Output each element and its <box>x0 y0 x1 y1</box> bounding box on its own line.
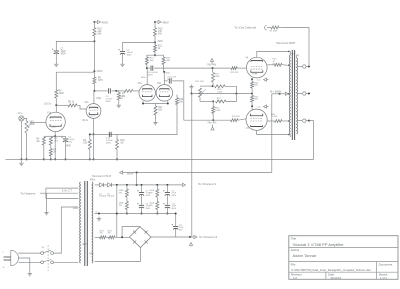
bias rail vertical from bridge <box>191 94 193 238</box>
tetrode V4 KT88 upper <box>246 57 268 78</box>
lower grid line <box>184 119 231 121</box>
title block Sheets <box>379 272 388 280</box>
tetrode V3 KT88 lower <box>246 109 267 130</box>
wire V2b plate <box>163 72 165 84</box>
B+ 560V feed <box>270 90 288 96</box>
node V1b plate 240v <box>93 90 102 100</box>
wire secondary common to ground bus <box>21 121 313 160</box>
NFB wire from 16R tap <box>283 28 309 67</box>
bias filter capacitor C11 47uF <box>172 213 185 238</box>
filter capacitor C7 47uF upper <box>137 185 151 205</box>
svg-text:RV1 50K: RV1 50K <box>195 81 204 83</box>
switched neutral to primary <box>54 261 79 263</box>
NFB resistor R1 3K9 <box>270 26 283 33</box>
svg-text:2W: 2W <box>108 233 111 235</box>
grid stopper R24 2K2 (lower) <box>231 116 246 122</box>
node V1a plate 181.5v <box>44 104 57 107</box>
svg-text:40.2v: 40.2v <box>82 120 88 122</box>
bias winding lower wire <box>95 248 141 262</box>
title block File <box>291 262 372 272</box>
grid stopper R11 to V2a <box>116 89 139 100</box>
resistor R10 22k 5W <box>93 28 103 37</box>
resistor R22 220K (lower bias) <box>212 101 221 121</box>
svg-text:1N5408: 1N5408 <box>99 196 107 198</box>
wire pot to ground bus <box>26 133 28 160</box>
title block frame <box>289 236 398 280</box>
resistor R6 220K (V1a load) <box>55 90 65 98</box>
resistor R17 820 (driver cathode) <box>154 106 163 121</box>
upper cathode node 1.1v <box>251 78 268 82</box>
bias feed L wire <box>121 227 140 239</box>
svg-text:V1b: V1b <box>85 102 90 104</box>
heater wires 6.3v C.T <box>40 188 78 198</box>
svg-text:400V: 400V <box>146 195 151 197</box>
resistor R9 (V1b load) <box>93 71 103 91</box>
svg-text:6.3v C.T: 6.3v C.T <box>62 188 73 192</box>
svg-text:'Mucsat 1' KT88 PP Amplifier: 'Mucsat 1' KT88 PP Amplifier <box>293 242 345 247</box>
wire left rail mid <box>93 41 95 71</box>
PSU filter top row <box>116 184 182 186</box>
svg-text:1 of 1: 1 of 1 <box>380 276 387 280</box>
wire jack ground <box>20 121 22 160</box>
wire to C1 <box>56 41 94 48</box>
svg-text:NFB: NFB <box>66 145 71 147</box>
grid stopper R23 2K2 (upper) <box>231 67 247 74</box>
svg-text:Hammond 1650T: Hammond 1650T <box>276 42 296 45</box>
wire V1a cathode to R5 junction <box>54 137 56 160</box>
mains neutral wire <box>18 261 40 263</box>
resistor R18 10K <box>117 95 184 135</box>
svg-text:220K: 220K <box>215 76 221 78</box>
svg-text:R1 3K9: R1 3K9 <box>270 31 278 33</box>
svg-text:340V: 340V <box>158 41 164 43</box>
rectifier diode D2 1N5408 <box>104 183 117 198</box>
node upper bias junction <box>212 85 214 87</box>
svg-text:2W: 2W <box>119 192 122 194</box>
svg-text:560V: 560V <box>127 172 134 176</box>
title block Title <box>291 237 345 248</box>
mains live wire <box>18 252 40 254</box>
svg-text:2W: 2W <box>100 233 103 235</box>
wire split to branches <box>147 55 164 57</box>
ground driver cathode <box>153 121 157 125</box>
label 400V lower <box>82 243 88 246</box>
node 340V driver rail <box>154 41 163 44</box>
wire V1b plate <box>93 91 95 104</box>
560V dropper vertical <box>136 173 138 185</box>
secondary tap 0R <box>297 119 310 122</box>
node driver grid leak <box>115 90 117 92</box>
node 340V left rail <box>93 69 102 73</box>
bleeder resistor R30 180K lower <box>119 202 129 215</box>
svg-text:File: File <box>291 262 296 266</box>
wire V1b cathode down <box>93 118 95 135</box>
svg-text:400V: 400V <box>148 74 154 76</box>
label 40.2v <box>82 120 88 122</box>
node upper grid line <box>212 67 214 69</box>
label Hammond 372JX <box>92 175 112 178</box>
resistor R2 15K (V1b cathode) <box>83 134 91 160</box>
coupling capacitor C3 0.47uF 400V <box>94 88 116 103</box>
bias output wire <box>151 236 191 238</box>
title block Date <box>328 272 341 280</box>
svg-text:2W: 2W <box>119 205 122 207</box>
capacitor C2 100uF (cathode bypass) <box>55 136 75 160</box>
svg-text:Title: Title <box>291 237 297 241</box>
capacitor C1 10uF 400V <box>52 48 66 62</box>
bleeder resistor R29 180K upper <box>119 185 129 202</box>
driver cathode junction wires <box>142 101 169 106</box>
svg-text:400V: 400V <box>127 54 133 56</box>
switch S1b <box>41 260 54 264</box>
svg-text:V2a: V2a <box>138 83 143 85</box>
label 64v bias <box>89 253 94 256</box>
svg-text:100K: 100K <box>217 91 223 93</box>
heater CT ground drop <box>44 193 48 215</box>
cathode sense resistor R27 0R1 lower <box>251 94 260 107</box>
PSU bottom rail 0v <box>95 212 176 215</box>
svg-text:460V: 460V <box>162 20 169 24</box>
svg-text:31/10/10: 31/10/10 <box>330 276 341 280</box>
svg-text:To Channel 2: To Channel 2 <box>199 235 218 239</box>
bias dropper resistors 0k47 <box>95 231 130 239</box>
switch linkage dashed <box>47 245 49 270</box>
wire cathode feedback line <box>89 133 117 135</box>
bridge rectifier BR1 <box>130 227 152 248</box>
svg-text:R24 2K2: R24 2K2 <box>232 116 241 118</box>
wire bias ground stem <box>191 89 193 94</box>
switch S1a <box>41 247 54 254</box>
resistor R20 100K horizontal <box>215 85 237 94</box>
power transformer primary winding <box>79 182 82 263</box>
output transformer core <box>292 50 294 140</box>
mains earth wire <box>18 258 32 276</box>
lower bias arrow -76v <box>207 121 217 131</box>
wire V1a cathode down <box>54 132 56 138</box>
svg-text:220K: 220K <box>59 93 65 95</box>
secondary tap 16R <box>297 65 310 68</box>
ground bias reference <box>189 85 193 89</box>
node V2a plate junction <box>141 65 148 80</box>
svg-text:39K: 39K <box>150 60 154 62</box>
label To Heaters <box>20 192 35 196</box>
ground bus <box>6 158 314 160</box>
svg-text:V2b: V2b <box>157 83 162 85</box>
svg-text:15K: 15K <box>83 143 88 145</box>
svg-text:J1 In: J1 In <box>17 113 23 115</box>
resistor R12 1k (driver feed) <box>154 43 163 56</box>
To Channel 2 arrow (bias) <box>190 235 218 239</box>
triode V1a <box>46 112 65 131</box>
title block Revision <box>291 272 302 280</box>
lower cathode node 1.1v <box>251 105 268 109</box>
svg-text:400v: 400v <box>90 179 96 182</box>
ground below C4 <box>120 62 124 66</box>
resistor R5 47 (NFB leg) <box>49 149 57 161</box>
resistor R14 39K (V2a load) <box>145 57 154 65</box>
svg-text:2W: 2W <box>149 205 152 207</box>
svg-text:R23 2K2: R23 2K2 <box>231 72 240 74</box>
wire V1b cathode to bus <box>93 134 95 160</box>
node driver loads split <box>154 54 156 56</box>
560V rail to B+ riser <box>126 172 271 174</box>
node V2b plate junction <box>163 65 171 75</box>
B+ riser from PSU <box>271 94 273 173</box>
title block Author <box>291 248 317 258</box>
potentiometer VR1 100K <box>25 121 35 133</box>
svg-text:181.5v: 181.5v <box>44 104 52 106</box>
svg-text:-76v 4%: -76v 4% <box>206 63 216 67</box>
wire tap to V1a plate rail <box>56 72 94 90</box>
resistor R15 1M to bus <box>116 134 126 160</box>
label 400v upper <box>90 179 96 182</box>
svg-text:Adam Tonnar: Adam Tonnar <box>293 253 317 258</box>
svg-text:To V1a Cathode: To V1a Cathode <box>234 25 256 29</box>
filter capacitor C8 47uF lower <box>137 203 151 215</box>
cathode sense resistor R26 0R1 upper <box>251 79 260 93</box>
ground PSU 0v <box>97 217 101 221</box>
svg-text:230v: 230v <box>73 206 79 210</box>
svg-text:400V: 400V <box>82 243 88 246</box>
mains plug PL1 <box>3 250 19 268</box>
triode V1b <box>85 102 101 118</box>
svg-text:400V: 400V <box>146 208 151 210</box>
ground driver grid leak <box>117 103 121 107</box>
wire V1a plate <box>55 105 57 112</box>
bleeder resistor R31 100K upper <box>149 185 158 202</box>
wire R6 to node <box>55 98 57 105</box>
wire lower plate to OPT bottom <box>257 130 289 134</box>
svg-text:100K: 100K <box>217 101 223 103</box>
svg-text:220K: 220K <box>215 110 221 112</box>
coupling to V1b: wire and resistor R8 <box>56 102 86 109</box>
power transformer secondary winding <box>91 182 94 263</box>
svg-text:12ax7: 12ax7 <box>89 115 96 117</box>
resistor R3 1K5 (V1a cathode) <box>49 136 59 148</box>
lower bias junction node <box>200 100 214 102</box>
triode V2a driver <box>138 83 156 101</box>
filter capacitor C9 47uF upper <box>163 185 177 205</box>
filter capacitor C10 47uF lower <box>163 203 177 215</box>
svg-text:400V: 400V <box>106 143 112 145</box>
svg-text:100K: 100K <box>30 124 36 126</box>
wire V2a plate <box>146 68 148 85</box>
svg-text:340V: 340V <box>97 69 103 73</box>
screen resistor R28 (lower UL) <box>267 114 288 123</box>
wire lower cathode top <box>251 106 253 110</box>
title block Document <box>379 263 393 267</box>
resistor R4 1M grid leak <box>36 136 55 160</box>
switched live to primary <box>54 207 79 253</box>
svg-text:39K: 39K <box>166 60 170 62</box>
svg-text:To Channel 2: To Channel 2 <box>198 182 217 186</box>
svg-text:1N5408: 1N5408 <box>107 196 115 198</box>
svg-text:240v: 240v <box>96 98 102 100</box>
svg-text:R8 1K: R8 1K <box>68 102 75 104</box>
secondary tap 8R <box>297 92 310 95</box>
svg-text:460V: 460V <box>102 20 109 24</box>
svg-text:OPT: OPT <box>291 53 296 55</box>
To Channel 2 arrow (HT) <box>183 182 217 187</box>
ground on bus left <box>19 161 23 165</box>
svg-text:400V: 400V <box>167 79 173 81</box>
resistor R7 1M (driver grid leak) <box>116 91 125 103</box>
svg-text:10K: 10K <box>179 101 184 103</box>
svg-text:12ax7: 12ax7 <box>51 126 58 128</box>
input connector J1 <box>17 113 24 121</box>
power arrow 460V (driver rail) <box>154 20 169 24</box>
svg-text:C8H: C8H <box>98 80 103 82</box>
node left rail / C1 branch <box>93 40 95 42</box>
cathode sense line <box>192 93 254 95</box>
coupling capacitor C6 0.47uF 400V to V4 grid <box>147 66 231 77</box>
svg-text:400V: 400V <box>172 195 177 197</box>
svg-text:To Heaters: To Heaters <box>20 192 35 196</box>
wire jack to pot <box>24 118 27 121</box>
triode V2b driver <box>156 83 173 101</box>
svg-text:1M: 1M <box>36 141 39 143</box>
560V net arrow <box>120 171 138 176</box>
svg-text:400V: 400V <box>106 101 112 103</box>
wire to C4 decoupler <box>123 43 156 50</box>
resistor R19 220K (upper bias) <box>212 68 221 86</box>
svg-text:400V: 400V <box>61 54 67 56</box>
wire upper plate to OPT top <box>257 51 289 57</box>
wire left HT rail upper <box>93 22 95 41</box>
svg-text:Author: Author <box>291 248 300 252</box>
bias trimmer RV1 <box>195 81 212 101</box>
svg-text:K:\WinTRP\TinyCad_Amp_DesignDC: K:\WinTRP\TinyCad_Amp_DesignDC_Coupled_S… <box>292 268 372 272</box>
svg-text:1M: 1M <box>122 96 125 98</box>
power arrow 460V (left rail) <box>93 20 108 24</box>
bias test arrow <box>189 243 192 247</box>
svg-text:Document: Document <box>379 263 393 267</box>
label OPT <box>291 53 296 55</box>
ground below C1 <box>54 62 58 66</box>
power transformer core <box>85 181 88 266</box>
svg-text:2W: 2W <box>149 192 152 194</box>
label To V1a Cathode <box>234 25 271 30</box>
svg-text:-76v 4%: -76v 4% <box>207 121 217 125</box>
output transformer secondary winding <box>297 55 299 134</box>
HT CT drop to bias line <box>116 185 118 237</box>
wire grid V1a <box>30 121 46 124</box>
resistor R21 100K (lower bias h) <box>216 94 237 103</box>
coupling capacitor C5 0.1uF 400V to V3 grid <box>164 77 184 121</box>
svg-text:1.0: 1.0 <box>293 276 297 280</box>
svg-text:25V: 25V <box>68 141 72 143</box>
capacitor C4 100uF 400V decoupling <box>118 49 133 62</box>
svg-text:400V: 400V <box>172 208 177 210</box>
capacitor C14 0.47uF on feedback line <box>106 132 113 145</box>
svg-text:KT88: KT88 <box>252 74 258 76</box>
svg-text:5W: 5W <box>273 63 276 65</box>
rectifier diode D1 1N5408 <box>95 183 107 198</box>
label Hammond 1650T <box>276 42 296 45</box>
resistor R16 39K (V2b load) <box>162 57 171 65</box>
label 230v <box>73 206 79 210</box>
output transformer primary winding <box>288 51 290 137</box>
bleeder resistor R32 100K lower <box>149 202 158 215</box>
NFB node label <box>51 145 71 148</box>
screen resistor R25 (upper UL) <box>267 59 288 67</box>
svg-text:1M: 1M <box>120 143 123 145</box>
resistor R13 27k 5W <box>154 22 164 43</box>
upper bias arrow -76v <box>206 59 216 67</box>
svg-text:V1a: V1a <box>47 113 52 115</box>
